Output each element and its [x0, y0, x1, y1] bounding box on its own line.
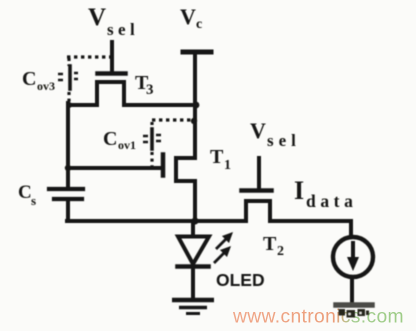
transistor T1 channel bump — [176, 158, 195, 181]
node junction dot rail/gate — [65, 165, 71, 171]
wire Vc vertical down to T1 drain — [193, 52, 197, 158]
svg-text:V: V — [88, 4, 106, 31]
svg-text:1: 1 — [224, 158, 231, 173]
transistor T2 channel bump — [246, 201, 270, 221]
svg-text:sel: sel — [107, 20, 139, 39]
Vc supply bar — [183, 50, 211, 55]
node junction dot dotted/Vc — [191, 118, 197, 124]
current source arrow — [347, 243, 359, 271]
svg-text:sel: sel — [267, 131, 301, 150]
svg-text:C: C — [103, 128, 117, 150]
transistor T3 label — [135, 72, 154, 98]
svg-text:c: c — [196, 17, 202, 32]
wire Cs bottom lead — [66, 201, 70, 221]
capacitor Cov1 label — [103, 128, 136, 152]
node junction dot Vc/T3 — [193, 102, 200, 109]
capacitor Cs bottom plate — [54, 197, 82, 201]
watermark www.cntronics.com — [232, 307, 404, 328]
capacitor Cov3 dotted link vertical lower — [67, 92, 70, 103]
wire T3 drain to Vc line — [124, 103, 196, 107]
light emission arrow upper — [217, 232, 233, 248]
svg-text:data: data — [306, 191, 357, 211]
node junction dot OLED node — [191, 217, 198, 224]
capacitor Cov3 dotted link horizontal — [67, 55, 110, 58]
svg-text:I: I — [294, 176, 304, 205]
wire bottom rail to T2 — [67, 219, 246, 223]
svg-text:T: T — [263, 233, 277, 255]
svg-text:3: 3 — [146, 82, 154, 98]
transistor T1 label — [210, 146, 231, 173]
capacitor Cov1 left plate marks — [143, 136, 148, 142]
wire T1 source down to OLED node — [193, 181, 197, 221]
transistor T2 gate bar — [242, 188, 272, 193]
wire T2 drain to current source — [270, 221, 351, 236]
capacitor Cov3 label — [22, 68, 55, 93]
transistor T3 channel bump — [97, 82, 124, 105]
svg-text:C: C — [18, 182, 32, 203]
diode OLED cathode bar — [178, 264, 209, 269]
svg-text:V: V — [180, 4, 196, 29]
node Vsel label (right) — [250, 118, 301, 150]
capacitor Cov1 plate bar — [150, 129, 154, 149]
capacitor Cov3 dotted link vertical upper — [67, 58, 70, 66]
svg-text:T: T — [210, 146, 224, 168]
transistor T1 gate bar — [161, 155, 166, 176]
capacitor Cov3 left plate marks — [58, 74, 63, 80]
wire T3 source to left rail — [68, 103, 97, 107]
wire current source to ground — [350, 277, 354, 303]
capacitor Cov1 dotted link vertical upper — [150, 122, 153, 129]
capacitor Cov1 dotted link vertical lower — [150, 152, 153, 166]
ground (current source) bar — [336, 302, 372, 308]
transistor T2 label — [263, 233, 284, 259]
wire T2 gate lead — [257, 158, 261, 188]
wire OLED cathode to ground — [191, 267, 195, 298]
capacitor Cov3 plate bar — [68, 66, 72, 89]
diode OLED triangle — [178, 237, 209, 265]
node junction dot left rail top — [66, 102, 72, 108]
capacitor Cov1 right plate marks — [156, 135, 161, 141]
capacitor Cs label — [18, 182, 36, 208]
svg-text:ov1: ov1 — [118, 138, 136, 152]
label Idata — [294, 176, 357, 211]
svg-text:ov3: ov3 — [37, 79, 55, 93]
ground (current source) remnant glyphs — [339, 309, 370, 318]
wire left rail vertical — [66, 103, 70, 187]
capacitor Cov1 dotted link horizontal — [152, 118, 192, 121]
svg-text:C: C — [22, 68, 36, 90]
svg-text:V: V — [250, 118, 266, 143]
wire T3 gate lead from Vsel — [110, 42, 114, 71]
ground (OLED) — [174, 300, 212, 314]
wire OLED anode lead — [191, 221, 195, 236]
current source circle — [333, 237, 373, 277]
capacitor Cs top plate — [49, 187, 83, 191]
transistor T3 gate bar — [98, 71, 126, 76]
svg-text:OLED: OLED — [216, 270, 265, 290]
svg-text:s: s — [31, 193, 36, 208]
svg-text:www.cntronics.com: www.cntronics.com — [232, 307, 404, 328]
node Vc label — [180, 4, 202, 32]
wire T1 gate lead to left rail — [68, 166, 163, 170]
node Vsel label (left) — [88, 4, 139, 39]
svg-text:2: 2 — [277, 244, 284, 259]
capacitor Cov3 right plate marks — [74, 73, 78, 79]
light emission arrow lower — [215, 246, 231, 262]
